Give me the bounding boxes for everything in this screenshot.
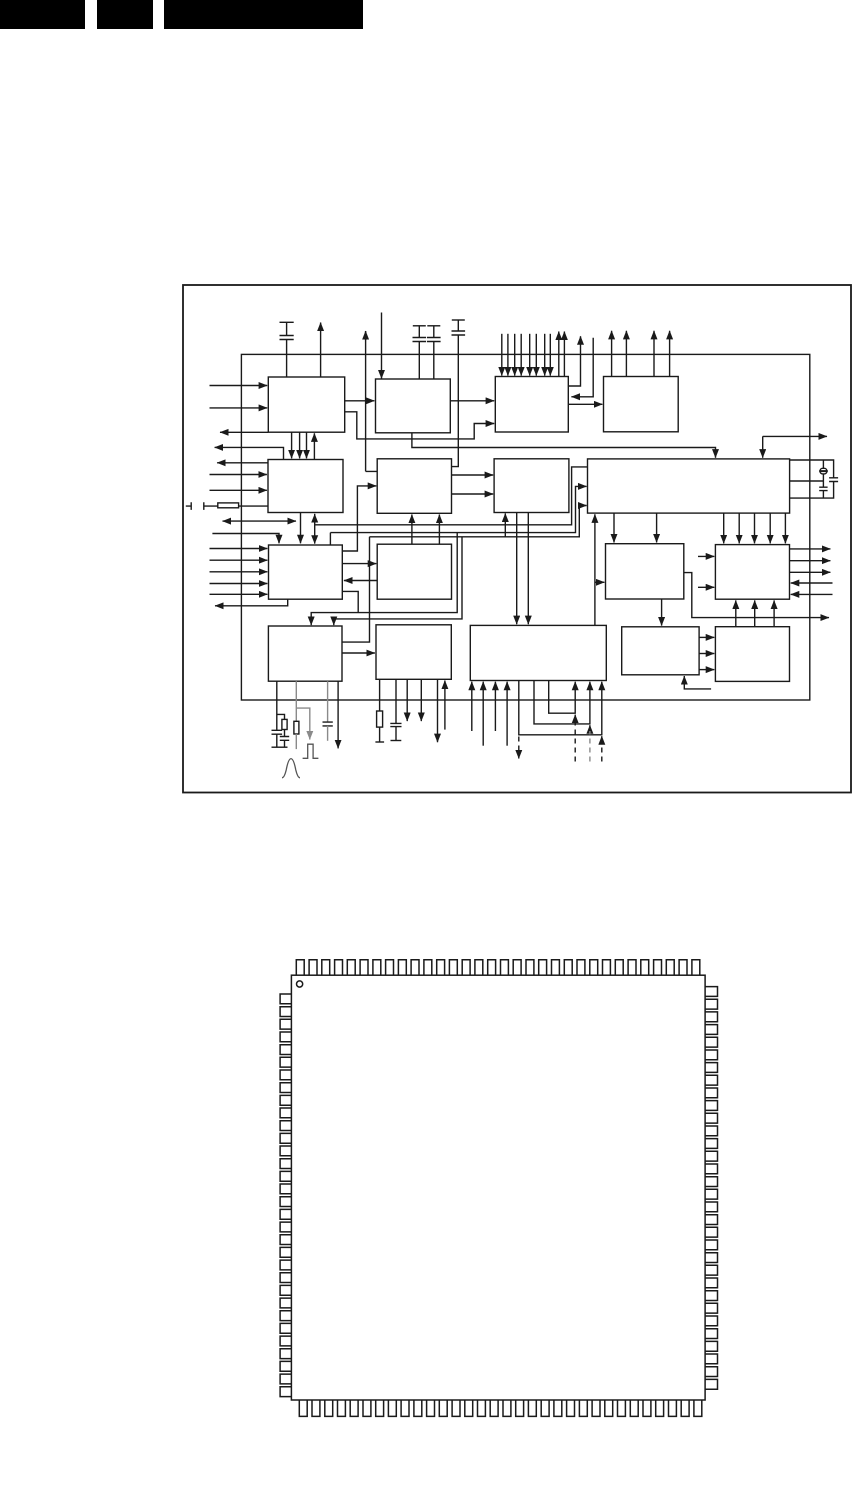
wire P to Q line1	[699, 636, 714, 638]
wire J to I	[344, 580, 377, 582]
crystal X1 body	[218, 503, 239, 508]
block A4 (row1 col4)	[604, 377, 679, 432]
wire P bottom stub	[684, 676, 711, 689]
arrowhead E-I down	[311, 535, 318, 544]
wire A3 top output 1	[558, 332, 560, 377]
wire H bottom to L top2	[738, 513, 740, 543]
resonator lead upper	[822, 460, 824, 468]
wire A1 to A2	[345, 400, 375, 402]
wire J top to F pin1	[411, 515, 413, 545]
wire N pin1 lead	[379, 679, 381, 711]
dashed return 3 head	[601, 736, 603, 743]
capacitor C8 plates	[390, 723, 401, 726]
capacitor C1 top bar	[280, 321, 294, 323]
header bar 3	[164, 0, 363, 29]
resonator cap plates	[819, 487, 827, 490]
block E (row2 col1)	[268, 460, 343, 513]
ground bar N pin2	[391, 740, 402, 742]
crystal X1 left bar	[186, 502, 191, 510]
wire P to Q line3	[699, 669, 714, 671]
capacitor C7 plates	[323, 722, 333, 726]
wire G bottom to O pin2	[527, 513, 529, 625]
wire A1 to E pin1	[291, 432, 293, 458]
wire A2 bottom to H top	[412, 433, 716, 458]
wire N pin6 arrow up	[444, 681, 446, 730]
wire A1 to E pin2	[299, 432, 301, 458]
resonator lead bottom	[822, 491, 824, 499]
bus C branch to G bottom	[504, 513, 506, 536]
wire output from A1 bottom corner	[220, 431, 268, 433]
wire H bottom to L top4	[769, 513, 771, 543]
hairpin wire 2	[534, 681, 590, 724]
wire N pin5 arrow down	[437, 679, 439, 742]
wire H bottom to L top5	[784, 513, 786, 543]
bus A to H	[315, 467, 588, 525]
hairpin wire 1	[549, 681, 576, 714]
IC inner boundary	[241, 354, 809, 700]
capacitor C3 plates	[427, 338, 441, 342]
wire A3 top input 4	[520, 334, 522, 376]
capacitor C2 top bar	[413, 325, 426, 327]
wire I right to F left	[342, 486, 376, 551]
QFP right pin row (pins 96..65)	[705, 987, 717, 1390]
wire input I line3	[210, 571, 268, 573]
resonator loop top	[790, 460, 834, 478]
wire E to A1 pin	[313, 433, 315, 459]
pulse waveform symbol	[303, 744, 319, 758]
wire output from I bottom	[215, 599, 288, 606]
capacitor C4 plates	[452, 331, 466, 335]
wire R2 lead lower	[295, 734, 297, 749]
wire N pin3 arrow down	[406, 679, 408, 721]
QFP left pin row (pins 1..32)	[280, 994, 291, 1397]
header bar 2	[97, 0, 153, 29]
capacitor C4 top bar	[452, 319, 465, 321]
wire H bottom to K top2	[656, 513, 658, 542]
wire L output 3	[790, 571, 831, 573]
wire output from E top riser	[215, 447, 284, 459]
wire C7 lead	[327, 726, 329, 741]
resonator lead lower	[822, 474, 824, 487]
wire L left input 1	[698, 555, 714, 557]
dashed return 1	[574, 721, 576, 762]
bus C branch to M top	[334, 537, 462, 625]
wire Q top to L bottom 2	[754, 600, 756, 626]
wire G bottom to O pin1	[516, 513, 518, 625]
bus C to H	[370, 506, 587, 537]
wire O top to H bottom	[594, 514, 596, 625]
wire N pin4 arrow down	[420, 679, 422, 721]
wire C8 lead	[395, 727, 397, 741]
resonator Y1 bar	[819, 470, 828, 472]
wire E bottom to I top	[300, 513, 302, 544]
wire L left input 2	[698, 586, 714, 588]
wire A3 to A4	[568, 403, 602, 405]
arrowhead E-I up	[311, 514, 318, 523]
wire H top right branch	[762, 436, 764, 457]
dashed return 2	[589, 731, 591, 762]
wire M pin3 lead	[327, 681, 329, 722]
wire N pin2 lead	[395, 679, 397, 723]
wire M to N	[342, 652, 375, 654]
bus C M-right stub	[342, 537, 370, 642]
wire Q top to L bottom 3	[773, 600, 775, 626]
wire H bottom to L top1	[723, 513, 725, 543]
wire input I line5	[210, 593, 268, 595]
capacitor C5 plates	[272, 730, 283, 734]
block A1 (row1 col1)	[268, 377, 344, 432]
wire input to I top routed	[212, 534, 279, 544]
wire bidirectional port	[223, 520, 297, 522]
block G (row2 col3)	[494, 459, 569, 513]
resonator loop cap plates	[829, 478, 838, 482]
wire H bottom to K top1	[613, 513, 615, 542]
resonator mid tap	[790, 480, 824, 482]
block L (row3 col4)	[715, 545, 789, 600]
wire O pin3 up arrow	[494, 682, 496, 731]
wire A1 to E pin3	[306, 432, 308, 458]
wire M pin2 lead	[295, 681, 297, 721]
bus B to H	[330, 486, 586, 532]
wire C2 to A2	[418, 342, 420, 380]
wire M pin2 branch to trigger	[296, 708, 310, 739]
wire A3 top input 1	[501, 334, 503, 376]
wire M pin1 branch	[277, 714, 285, 719]
wire A4 top output 1	[611, 331, 613, 377]
wire input I line1	[210, 548, 268, 550]
ground bar N pin1	[375, 741, 384, 743]
wire I to J	[342, 563, 376, 565]
wire top input to A2	[381, 313, 383, 379]
wire O pin2 up arrow	[482, 682, 484, 746]
capacitor C2 plates	[413, 338, 427, 342]
wire I right to bus branch	[342, 591, 358, 612]
wire A4 top output 2	[625, 331, 627, 377]
wire H bottom to L top3	[754, 513, 756, 543]
bus B branch to M top	[311, 533, 457, 626]
block F (row2 col2)	[377, 459, 451, 514]
block P (row4 col4)	[622, 627, 699, 675]
wire R3 lead lower	[379, 727, 381, 742]
block H (row2 wide)	[588, 459, 790, 513]
arrowhead top vert up	[365, 331, 367, 340]
resistor R2	[294, 721, 299, 734]
figure frame	[183, 285, 851, 793]
wire A4 top output 3	[653, 331, 655, 377]
capacitor C3 lead	[433, 326, 435, 338]
wire A3 top output 2	[563, 332, 565, 377]
capacitor C2 lead	[418, 326, 420, 338]
block M (row4 col1)	[268, 626, 342, 681]
wire input I line2	[210, 559, 268, 561]
dashed return 1 head	[574, 715, 576, 722]
wire A3 right-top output up	[568, 336, 580, 386]
capacitor C1 lead	[286, 322, 288, 335]
wire input A1 line2	[210, 407, 268, 409]
resonator Y1 body	[820, 468, 827, 474]
hairpin wire 3	[519, 681, 602, 735]
wire A2 to A3	[450, 400, 494, 402]
block A3 (row1 col3)	[495, 377, 568, 433]
resonator loop bottom	[790, 482, 834, 499]
wire K right out arrow	[684, 573, 829, 618]
crystal X1 right bar	[204, 502, 218, 510]
resistor R1	[282, 719, 287, 729]
block I (row3 col1)	[269, 545, 343, 599]
wire A3 top input 7	[544, 334, 546, 376]
bus B I-top stub	[329, 533, 331, 545]
wire M pin1 lead	[276, 681, 278, 730]
header bar 1	[0, 0, 85, 29]
block Q (row4 col5)	[715, 627, 789, 682]
wire R1 lead	[284, 730, 286, 737]
wire A3 top input 2	[507, 334, 509, 376]
block J (row3 col2)	[377, 544, 451, 599]
block N (row4 col2)	[376, 625, 451, 680]
dashed return 2 head	[589, 725, 591, 732]
wire L output 1	[790, 548, 831, 550]
block K (row3 col3)	[606, 544, 684, 599]
wire L input 1	[791, 582, 833, 584]
wire A3 top input 3	[514, 334, 516, 376]
burst waveform symbol	[282, 759, 300, 778]
QFP package body	[291, 975, 705, 1400]
wire branch to K left	[595, 581, 605, 583]
QFP bottom pin row (pins 33..64)	[299, 1400, 702, 1416]
wire J top to F pin2	[438, 515, 440, 545]
wire E-I bidirectional	[314, 514, 316, 544]
wire K bottom to P top	[661, 599, 663, 626]
dashed return 3	[601, 742, 603, 762]
wire F to G line2	[452, 493, 494, 495]
wire input E line2	[210, 489, 267, 491]
wire P to Q line2	[699, 653, 714, 655]
wire C3 to A2	[433, 342, 435, 380]
wire A3 top input 6	[535, 334, 537, 376]
wire C5 lead	[276, 734, 278, 747]
wire F to G line1	[452, 474, 494, 476]
wire crystal to E	[239, 505, 268, 507]
wire A3 top input 8	[549, 334, 551, 376]
arrowhead bidirectional left	[222, 518, 231, 525]
wire L input 2	[791, 593, 833, 595]
wire A3 top input 5	[529, 334, 531, 376]
wire input A1 line1	[210, 385, 268, 387]
ground bar M pin1	[272, 746, 288, 748]
wire H right out arrow	[763, 435, 827, 437]
wire O pin4 up arrow	[506, 682, 508, 746]
wire C1 to A1	[286, 340, 288, 378]
capacitor C4 lead	[457, 320, 459, 331]
wire top vert to F left	[366, 332, 378, 472]
QFP top pin row (pins 128..97)	[296, 960, 700, 975]
block A2 (row1 col2)	[376, 379, 451, 433]
wire Q top to L bottom 1	[735, 600, 737, 626]
wire top input to A3 right	[571, 338, 593, 397]
wire input E line1	[210, 474, 267, 476]
dashed exit down	[518, 737, 520, 759]
wire A1 top out arrow	[320, 323, 322, 378]
wire A1 to A3 routed	[345, 412, 495, 439]
pin 1 index mark	[297, 981, 303, 987]
block O (row4 wide)	[470, 625, 606, 680]
capacitor C1 plates	[280, 336, 294, 340]
capacitor C6 plates	[280, 737, 289, 741]
wire C6 lead	[284, 740, 286, 747]
wire input I line4	[210, 583, 268, 585]
wire A4 top output 4	[669, 331, 671, 377]
resistor R3	[377, 711, 383, 727]
wire O pin1 up arrow	[471, 682, 473, 731]
wire C4 to F right edge	[452, 335, 459, 467]
wire M pin4 arrow down	[337, 681, 339, 748]
wire L output 2	[790, 560, 831, 562]
wire output from E left top	[217, 462, 268, 464]
capacitor C3 top bar	[427, 325, 440, 327]
